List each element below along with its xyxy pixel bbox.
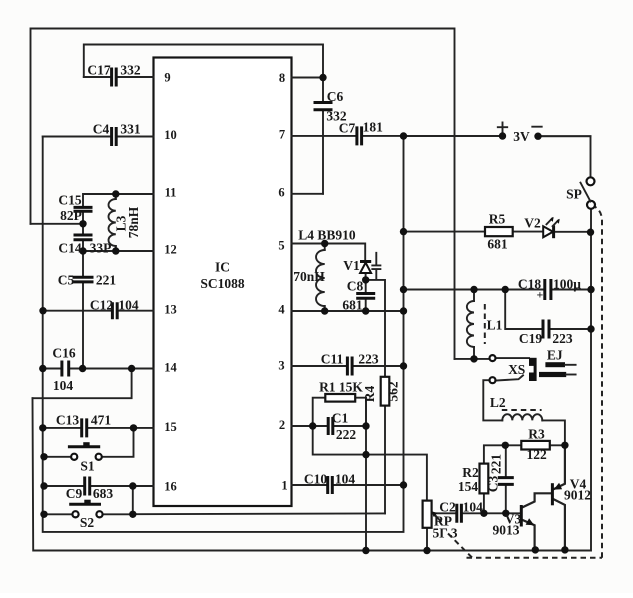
svg-text:104: 104 <box>463 499 484 514</box>
svg-text:L4 BB910: L4 BB910 <box>298 228 356 243</box>
svg-text:681: 681 <box>487 236 508 251</box>
svg-text:104: 104 <box>118 298 139 313</box>
svg-text:9013: 9013 <box>493 523 520 538</box>
svg-text:122: 122 <box>526 447 547 462</box>
svg-text:C7: C7 <box>339 121 356 136</box>
svg-text:221: 221 <box>489 454 504 475</box>
svg-text:100μ: 100μ <box>553 276 581 291</box>
svg-text:L1: L1 <box>487 318 503 333</box>
svg-text:3: 3 <box>278 359 284 373</box>
svg-text:IC: IC <box>215 260 230 275</box>
svg-text:S2: S2 <box>80 515 95 530</box>
svg-text:C6: C6 <box>327 89 344 104</box>
svg-text:V1: V1 <box>343 258 360 273</box>
svg-text:70nH: 70nH <box>293 269 325 284</box>
svg-text:11: 11 <box>165 186 177 200</box>
svg-text:1: 1 <box>281 479 287 493</box>
svg-text:332: 332 <box>120 63 141 78</box>
svg-text:C5: C5 <box>58 273 75 288</box>
svg-text:681: 681 <box>342 297 363 312</box>
svg-text:C12: C12 <box>90 298 113 313</box>
svg-text:9: 9 <box>164 71 170 85</box>
svg-text:SC1088: SC1088 <box>200 276 245 291</box>
svg-text:C13: C13 <box>56 413 79 428</box>
svg-text:C17: C17 <box>87 63 110 78</box>
svg-text:3V: 3V <box>513 129 530 144</box>
svg-text:C10: C10 <box>304 472 327 487</box>
svg-text:7: 7 <box>279 128 285 142</box>
svg-text:10: 10 <box>164 128 177 142</box>
svg-text:9012: 9012 <box>564 487 591 502</box>
svg-text:154: 154 <box>458 479 479 494</box>
svg-text:C8: C8 <box>347 278 364 293</box>
svg-text:L2: L2 <box>490 395 506 410</box>
svg-text:221: 221 <box>96 273 117 288</box>
svg-text:C1: C1 <box>332 411 349 426</box>
svg-text:SP: SP <box>566 187 582 202</box>
svg-text:R1 15K: R1 15K <box>319 380 363 395</box>
svg-text:C3: C3 <box>486 476 501 493</box>
svg-text:C15: C15 <box>58 193 81 208</box>
svg-text:562: 562 <box>386 381 401 402</box>
svg-text:C16: C16 <box>52 346 75 361</box>
svg-text:R4: R4 <box>362 386 377 403</box>
svg-text:C14: C14 <box>58 241 81 256</box>
svg-text:104: 104 <box>53 378 74 393</box>
svg-text:2: 2 <box>279 418 285 432</box>
svg-text:V2: V2 <box>524 216 541 231</box>
svg-text:78nH: 78nH <box>126 206 141 238</box>
svg-text:C4: C4 <box>93 122 110 137</box>
svg-text:R3: R3 <box>528 426 545 441</box>
svg-text:C19: C19 <box>519 331 542 346</box>
svg-text:471: 471 <box>91 413 112 428</box>
svg-text:5: 5 <box>278 239 284 253</box>
svg-text:223: 223 <box>358 352 379 367</box>
svg-text:12: 12 <box>164 243 177 257</box>
svg-text:15: 15 <box>164 420 177 434</box>
svg-text:C11: C11 <box>321 352 344 367</box>
svg-text:181: 181 <box>363 120 384 135</box>
svg-text:XS: XS <box>508 362 525 377</box>
svg-text:C2: C2 <box>439 499 456 514</box>
svg-text:331: 331 <box>120 122 141 137</box>
svg-text:13: 13 <box>164 303 177 317</box>
svg-text:16: 16 <box>164 480 177 494</box>
svg-text:EJ: EJ <box>547 347 563 362</box>
svg-text:683: 683 <box>93 486 114 501</box>
svg-text:6: 6 <box>278 186 284 200</box>
svg-text:C9: C9 <box>66 486 83 501</box>
svg-text:8: 8 <box>279 71 285 85</box>
svg-text:104: 104 <box>335 472 356 487</box>
svg-text:R2: R2 <box>462 465 479 480</box>
svg-text:R5: R5 <box>489 211 506 226</box>
svg-text:14: 14 <box>164 361 177 375</box>
svg-text:223: 223 <box>552 331 573 346</box>
svg-text:222: 222 <box>336 427 357 442</box>
svg-text:5Γ 3: 5Γ 3 <box>433 526 458 541</box>
svg-text:33P: 33P <box>90 241 112 256</box>
svg-text:+: + <box>537 288 544 302</box>
svg-text:4: 4 <box>278 303 285 317</box>
svg-text:82P: 82P <box>60 208 82 223</box>
svg-text:S1: S1 <box>80 459 95 474</box>
